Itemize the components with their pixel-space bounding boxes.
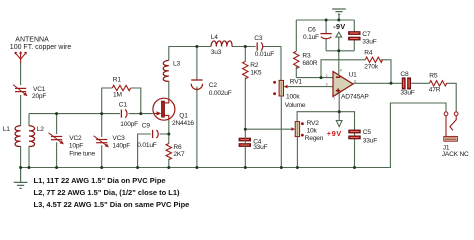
- svg-text:270k: 270k: [364, 64, 378, 71]
- svg-text:0.002uF: 0.002uF: [209, 90, 232, 97]
- svg-text:2K7: 2K7: [173, 151, 185, 158]
- svg-text:L4: L4: [211, 34, 218, 41]
- svg-text:R3: R3: [302, 53, 311, 60]
- wire VC1 to L1: [20, 95, 22, 126]
- svg-text:140pF: 140pF: [112, 143, 130, 150]
- wire R3 to op-amp pin2: [296, 77, 333, 79]
- svg-text:R2: R2: [250, 62, 259, 69]
- svg-text:10k: 10k: [307, 128, 318, 135]
- svg-text:Regen: Regen: [305, 135, 324, 142]
- wire V- stub: [338, 51, 340, 76]
- inductor L3: [163, 60, 169, 81]
- resistor R5: [429, 81, 446, 86]
- resistor R4: [365, 57, 382, 62]
- svg-text:R1: R1: [113, 77, 122, 84]
- capacitor C2: [191, 80, 202, 90]
- wire Q1 drain to L3: [168, 81, 170, 98]
- potentiometer RV1: [273, 80, 287, 96]
- svg-text:L1: L1: [3, 126, 10, 133]
- svg-text:Q1: Q1: [179, 113, 188, 120]
- svg-text:U1: U1: [349, 71, 358, 78]
- resistor R3: [294, 51, 299, 68]
- wire R2 branch: [244, 47, 246, 130]
- svg-text:33uF: 33uF: [253, 144, 267, 151]
- resistor R6: [166, 144, 171, 160]
- svg-text:680R: 680R: [302, 60, 317, 67]
- ground (top, inverted): [332, 9, 346, 20]
- capacitor C8: [402, 78, 410, 89]
- svg-text:3u3: 3u3: [211, 49, 222, 56]
- capacitor C6: [320, 34, 331, 39]
- capacitor C3: [257, 42, 263, 50]
- svg-text:R5: R5: [429, 73, 438, 80]
- svg-text:VC2: VC2: [69, 135, 82, 142]
- wire L2 top to bus corner: [28, 114, 30, 126]
- wire L2 bottom: [28, 146, 30, 168]
- svg-text:R6: R6: [173, 144, 182, 151]
- wire R1 bridge: [102, 88, 141, 114]
- svg-text:L1, 11T 22 AWG 1.5" Dia on PVC: L1, 11T 22 AWG 1.5" Dia on PVC Pipe: [34, 176, 166, 185]
- svg-text:100k: 100k: [286, 93, 300, 100]
- svg-text:0.1uF: 0.1uF: [303, 34, 319, 41]
- capacitor VC3: [94, 136, 109, 148]
- svg-text:C8: C8: [400, 71, 409, 78]
- svg-text:C6: C6: [308, 26, 317, 33]
- svg-text:R4: R4: [364, 50, 373, 57]
- wire ground rail -9V block: [296, 20, 354, 51]
- svg-text:4: 4: [340, 68, 342, 72]
- wire op-amp output: [353, 83, 456, 112]
- svg-text:1K5: 1K5: [250, 69, 262, 76]
- capacitor C5: [349, 130, 361, 139]
- svg-text:100pF: 100pF: [120, 121, 138, 128]
- antenna symbol: [15, 52, 27, 64]
- op-amp U1: [333, 72, 353, 97]
- svg-text:L3: L3: [173, 61, 180, 68]
- svg-text:47R: 47R: [429, 86, 441, 93]
- svg-text:L2: L2: [37, 126, 44, 133]
- wire antenna to VC1: [20, 63, 22, 86]
- svg-text:RV1: RV1: [290, 78, 303, 85]
- capacitor C9: [153, 130, 159, 138]
- svg-text:Volume: Volume: [285, 102, 306, 109]
- wire ground bus: [21, 103, 446, 168]
- wire RV2 wiper to C4 node: [245, 128, 291, 130]
- +9V supply arrow: [336, 121, 342, 127]
- svg-text:33uF: 33uF: [400, 89, 414, 96]
- wire L1 to ground bus: [20, 146, 22, 168]
- svg-text:ANTENNA: ANTENNA: [15, 36, 49, 43]
- wire L3 to bus2: [169, 47, 281, 81]
- svg-text:3: 3: [326, 83, 328, 87]
- svg-text:C9: C9: [142, 122, 151, 129]
- wire R4 feedback: [321, 60, 391, 84]
- svg-text:VC1: VC1: [33, 86, 46, 93]
- svg-text:C2: C2: [209, 82, 218, 89]
- wire Q1 source to R6: [168, 120, 170, 168]
- svg-text:33uF: 33uF: [363, 138, 377, 145]
- wire VC3 branch: [101, 114, 103, 168]
- capacitor VC2: [49, 133, 64, 145]
- wire top bus: [29, 113, 153, 115]
- potentiometer RV2: [291, 122, 303, 137]
- svg-text:Fine tune: Fine tune: [69, 150, 95, 157]
- svg-text:L3, 4.5T 22 AWG 1.5" Dia on sa: L3, 4.5T 22 AWG 1.5" Dia on same PVC Pip…: [34, 200, 190, 209]
- ground (left): [14, 168, 28, 189]
- inductor L1: [15, 126, 21, 147]
- svg-text:10pF: 10pF: [69, 143, 83, 150]
- svg-text:0.01uF: 0.01uF: [137, 142, 157, 149]
- capacitor C1: [121, 110, 127, 118]
- inductor L2: [29, 126, 35, 147]
- svg-text:7: 7: [333, 97, 335, 101]
- wire V+ stub and +9V node: [297, 93, 354, 168]
- svg-text:2N4416: 2N4416: [172, 120, 194, 127]
- resistor R1: [112, 85, 130, 90]
- svg-text:+9V: +9V: [327, 129, 342, 138]
- -9V supply arrow: [336, 32, 342, 51]
- svg-text:100 FT. copper wire: 100 FT. copper wire: [10, 44, 72, 51]
- wire RV1 wiper to op-amp pin3: [287, 86, 333, 88]
- capacitor C4: [239, 138, 251, 146]
- transistor Q1: [153, 98, 175, 120]
- svg-text:2: 2: [326, 74, 328, 78]
- wire VC2 branch: [56, 114, 58, 168]
- svg-text:L2, 7T 22 AWG 1.5" Dia, (1/2": L2, 7T 22 AWG 1.5" Dia, (1/2" close to L…: [34, 188, 181, 197]
- svg-text:VC3: VC3: [112, 135, 125, 142]
- connector J1 jack: [444, 112, 458, 141]
- svg-text:C3: C3: [254, 35, 263, 42]
- svg-text:1M: 1M: [113, 92, 122, 99]
- svg-text:C7: C7: [362, 31, 371, 38]
- wire RV1 bottom to ground bus: [280, 96, 282, 168]
- svg-text:JACK NC: JACK NC: [442, 151, 469, 158]
- inductor L4: [211, 41, 232, 47]
- capacitor C7: [349, 32, 361, 40]
- svg-text:C1: C1: [119, 101, 128, 108]
- svg-text:-9V: -9V: [333, 22, 345, 31]
- svg-text:RV2: RV2: [307, 120, 320, 127]
- resistor R2: [243, 61, 248, 78]
- svg-text:20pF: 20pF: [32, 93, 46, 100]
- svg-text:0.01uF: 0.01uF: [255, 51, 275, 58]
- wire C4 to ground bus: [244, 129, 246, 168]
- wire RV2 bottom: [296, 137, 298, 168]
- svg-text:AD745AP: AD745AP: [341, 94, 369, 101]
- wire C9 branch: [138, 134, 169, 168]
- wire C2 branch: [196, 47, 198, 169]
- svg-text:33uF: 33uF: [362, 38, 376, 45]
- svg-text:C5: C5: [363, 129, 372, 136]
- capacitor VC1: [13, 85, 28, 97]
